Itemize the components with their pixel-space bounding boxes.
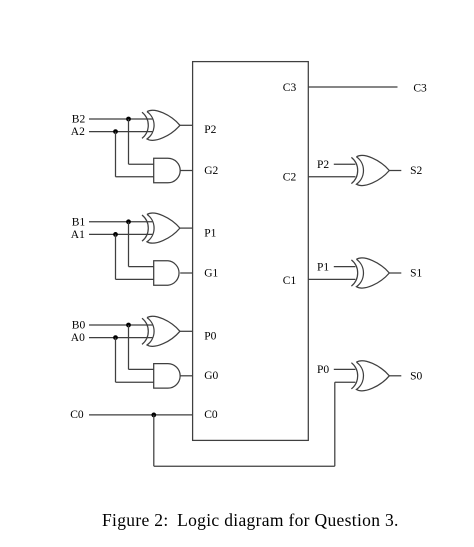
svg-text:G0: G0 xyxy=(204,370,218,382)
svg-text:S1: S1 xyxy=(410,268,422,280)
svg-text:C2: C2 xyxy=(283,171,297,183)
svg-text:S2: S2 xyxy=(410,165,422,177)
svg-text:B2: B2 xyxy=(72,114,86,126)
svg-text:G2: G2 xyxy=(204,165,218,177)
svg-text:P2: P2 xyxy=(204,124,216,136)
svg-text:P0: P0 xyxy=(204,330,216,342)
svg-text:P1: P1 xyxy=(317,261,329,273)
svg-text:A0: A0 xyxy=(71,332,85,344)
svg-text:P1: P1 xyxy=(204,228,216,240)
svg-text:A2: A2 xyxy=(71,126,85,138)
svg-text:C1: C1 xyxy=(283,275,297,287)
svg-text:C3: C3 xyxy=(413,82,427,94)
svg-text:C0: C0 xyxy=(204,409,218,421)
svg-text:B0: B0 xyxy=(72,320,86,332)
svg-text:G1: G1 xyxy=(204,267,218,279)
svg-text:C3: C3 xyxy=(283,82,297,94)
svg-text:C0: C0 xyxy=(70,409,84,421)
svg-text:B1: B1 xyxy=(72,216,86,228)
svg-text:A1: A1 xyxy=(71,229,85,241)
svg-text:P0: P0 xyxy=(317,364,329,376)
svg-text:S0: S0 xyxy=(410,370,422,382)
svg-text:P2: P2 xyxy=(317,159,329,171)
